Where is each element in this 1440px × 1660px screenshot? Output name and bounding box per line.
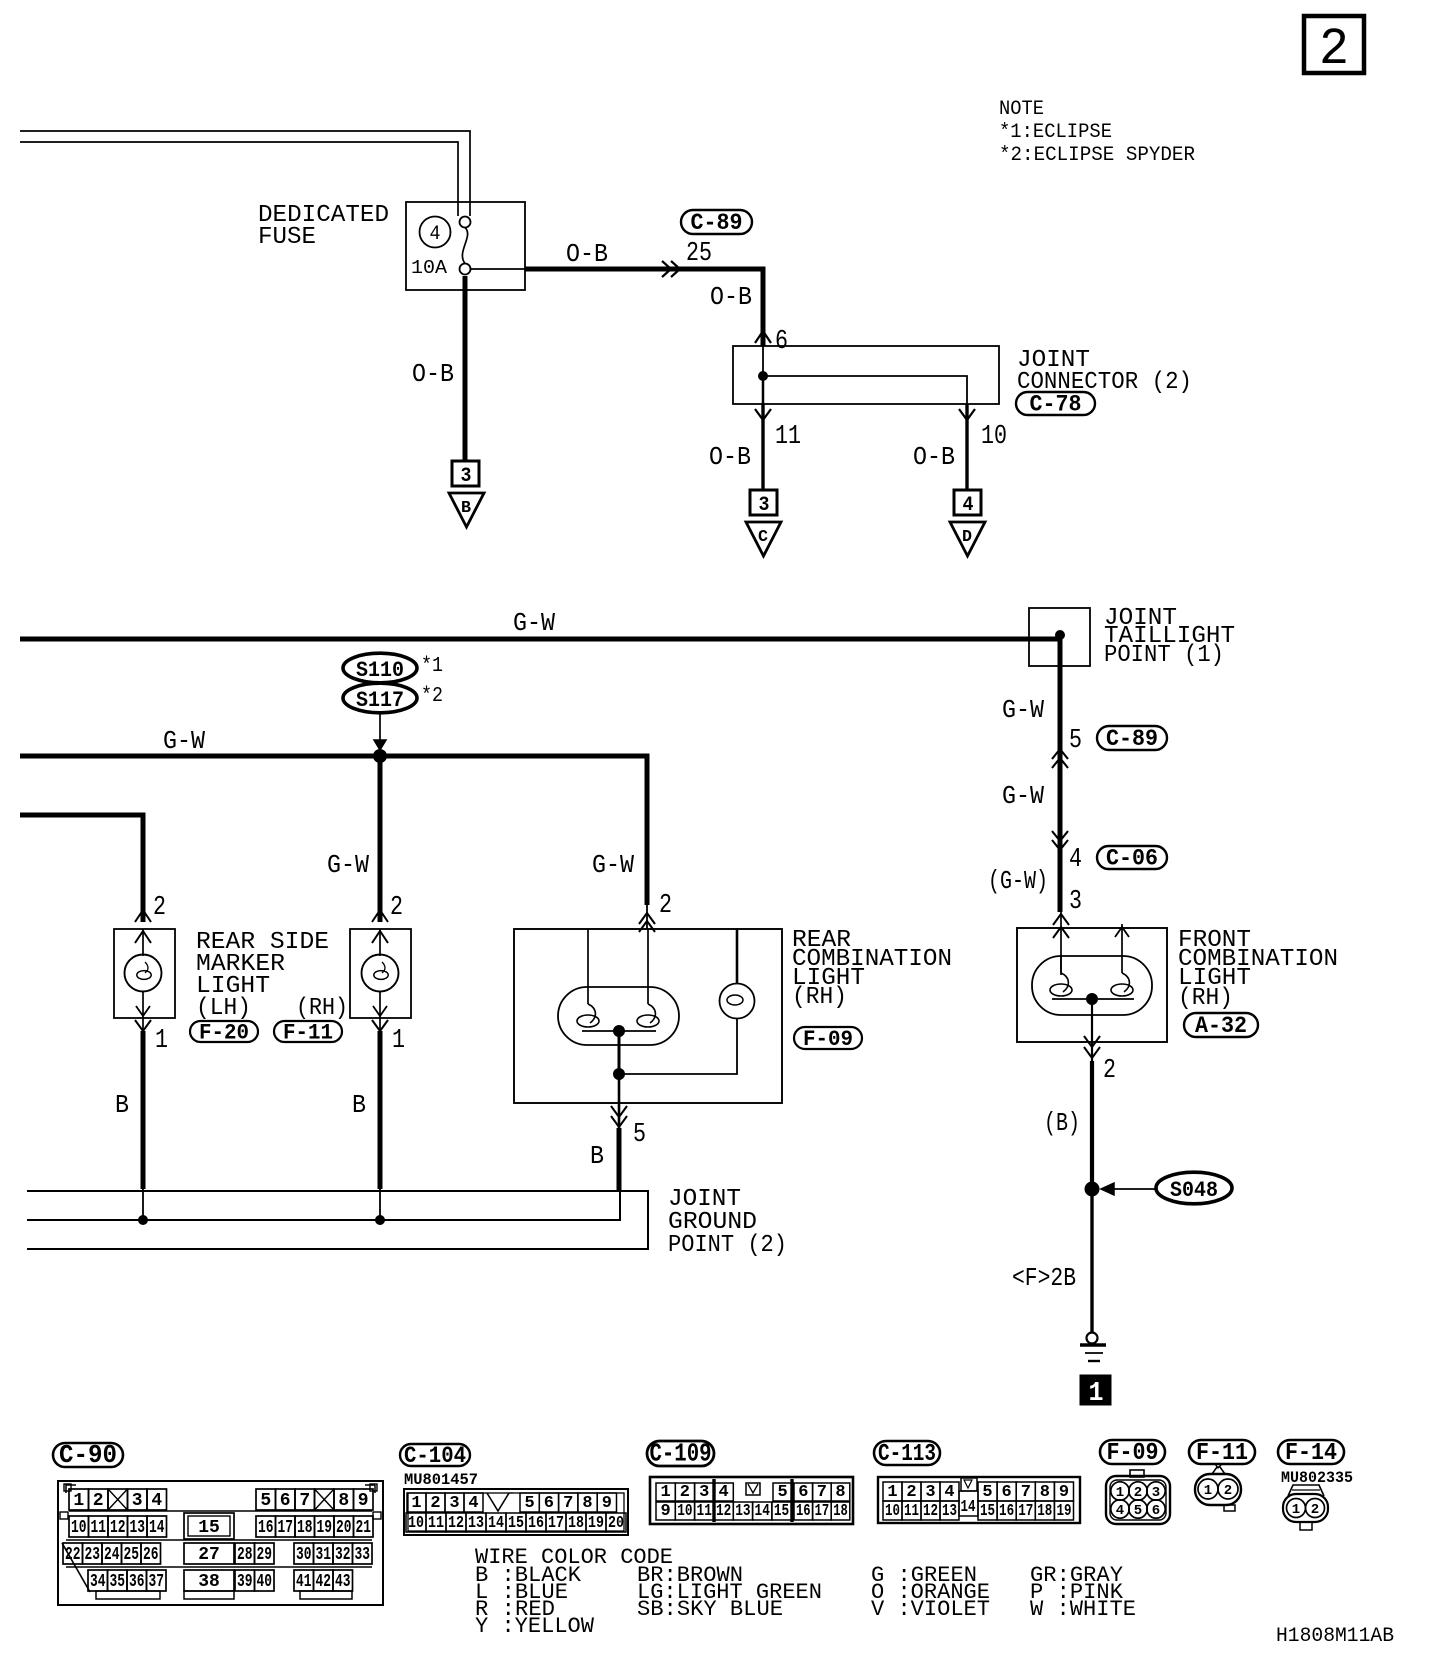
terminal arrow B (449, 493, 484, 527)
svg-text:3: 3 (449, 1494, 459, 1513)
svg-text:21: 21 (355, 1518, 371, 1538)
svg-text:18: 18 (833, 1502, 848, 1521)
ground reference 1 black box (1080, 1375, 1111, 1405)
connector F-09 capsule (rear combination) (794, 1027, 862, 1049)
svg-text:*1:ECLIPSE: *1:ECLIPSE (999, 121, 1112, 144)
svg-text:16: 16 (999, 1502, 1014, 1521)
svg-text:3: 3 (925, 1483, 935, 1502)
svg-text:A-32: A-32 (1195, 1013, 1247, 1039)
svg-text:7: 7 (817, 1483, 827, 1502)
wire O-B fuse to C-89 (thick) (525, 269, 763, 346)
junction dot in joint connector (759, 372, 768, 381)
wire to small bulb (619, 1019, 737, 1074)
connector C-89 capsule (right) (1097, 726, 1167, 750)
svg-text:41: 41 (296, 1572, 312, 1592)
junction dot ground RH (376, 1216, 385, 1225)
svg-text:32: 32 (335, 1545, 351, 1565)
svg-text:17: 17 (1018, 1502, 1033, 1521)
svg-text:5: 5 (524, 1494, 534, 1513)
svg-text:5: 5 (777, 1483, 787, 1502)
svg-text:O-B: O-B (566, 239, 608, 269)
connector F-20 capsule (190, 1021, 258, 1042)
svg-text:6: 6 (544, 1494, 554, 1513)
wire O-B to terminal C (761, 404, 764, 490)
svg-text:G-W: G-W (1002, 781, 1044, 811)
svg-text:7: 7 (563, 1494, 573, 1513)
svg-text:C-90: C-90 (59, 1440, 117, 1470)
svg-text:2: 2 (1224, 1483, 1232, 1499)
svg-text:6: 6 (280, 1491, 291, 1511)
svg-text:2: 2 (390, 893, 403, 923)
svg-text:33: 33 (354, 1545, 370, 1565)
svg-text:20: 20 (608, 1514, 624, 1533)
svg-text:37: 37 (148, 1572, 164, 1592)
svg-text:43: 43 (335, 1572, 351, 1592)
svg-text:7: 7 (299, 1491, 310, 1511)
svg-text:O-B: O-B (412, 359, 454, 389)
joint taillight point box (1029, 608, 1090, 666)
svg-text:11: 11 (90, 1518, 106, 1538)
svg-text:FUSE: FUSE (258, 224, 316, 251)
junction dot rear combination (614, 1026, 625, 1037)
arrow splice to junction (379, 714, 381, 744)
svg-text:S048: S048 (1170, 1178, 1218, 1203)
svg-text:40: 40 (256, 1572, 272, 1592)
svg-text:F-09: F-09 (1107, 1440, 1159, 1467)
svg-text:C: C (758, 528, 768, 547)
svg-text:3: 3 (132, 1491, 143, 1511)
wire O-B to terminal D (965, 404, 968, 490)
joint connector C-78 box (733, 346, 999, 404)
rear combination light box (514, 929, 782, 1103)
arrow down pin 11 (755, 409, 771, 420)
svg-text:23: 23 (84, 1545, 100, 1565)
svg-text:B: B (115, 1090, 129, 1120)
svg-text:17: 17 (815, 1502, 830, 1521)
connector C-90 capsule (53, 1443, 123, 1467)
svg-text:1: 1 (411, 1494, 421, 1513)
junction dot 2 rear combination (614, 1069, 625, 1080)
svg-text:5: 5 (1134, 1503, 1142, 1519)
svg-text:31: 31 (315, 1545, 331, 1565)
svg-text:9: 9 (1059, 1483, 1069, 1502)
junction dot ground LH (139, 1216, 148, 1225)
svg-text:B: B (590, 1141, 604, 1171)
arrow out of marker LH (136, 1006, 150, 1016)
svg-text:G-W: G-W (513, 608, 555, 638)
svg-text:6: 6 (1001, 1483, 1011, 1502)
arrow up at C-89 (1052, 749, 1068, 759)
svg-text:5: 5 (633, 1120, 646, 1150)
svg-text:14: 14 (755, 1502, 770, 1521)
svg-text:11: 11 (904, 1502, 919, 1521)
svg-text:2: 2 (153, 893, 166, 923)
arrow out of rear combination (611, 1106, 627, 1117)
svg-text:3: 3 (1069, 887, 1082, 917)
svg-text:4: 4 (468, 1494, 478, 1513)
svg-text:1: 1 (1116, 1485, 1124, 1501)
wire G-W main bus to joint taillight point (20, 637, 1059, 642)
svg-text:39: 39 (237, 1572, 253, 1592)
connector A-32 capsule (1184, 1013, 1258, 1037)
connector C-06 capsule (1097, 846, 1167, 869)
svg-text:18: 18 (568, 1514, 584, 1533)
rear combination inner link (582, 1030, 656, 1032)
connector C-89 capsule (top) (681, 210, 752, 234)
svg-text:12: 12 (716, 1502, 731, 1521)
rear side marker light RH box (350, 929, 411, 1018)
svg-text:O-B: O-B (709, 442, 751, 472)
front light filament right (1122, 973, 1129, 992)
arrow right on O-B wire (662, 261, 671, 277)
svg-text:10: 10 (677, 1502, 692, 1521)
svg-text:(LH): (LH) (196, 995, 251, 1022)
terminal arrow D (950, 522, 985, 556)
svg-text:1: 1 (1292, 1502, 1300, 1518)
svg-text:16: 16 (796, 1502, 811, 1521)
arrow down at C-06 (1052, 831, 1068, 841)
svg-text:*2: *2 (421, 685, 443, 708)
joint ground point bus (27, 1191, 648, 1249)
svg-text:18: 18 (1037, 1502, 1052, 1521)
svg-text:13: 13 (942, 1502, 957, 1521)
rear combination filament right (648, 1004, 655, 1023)
svg-text:SB:SKY BLUE: SB:SKY BLUE (637, 1597, 783, 1622)
svg-text:C-109: C-109 (650, 1439, 712, 1469)
connector F-14 capsule (1278, 1440, 1344, 1464)
svg-text:G-W: G-W (163, 726, 205, 756)
connector F-11 capsule (marker) (274, 1021, 342, 1042)
front light bulb stadium (1032, 956, 1152, 1015)
wire pair from page left (feed to dedicated fuse) (20, 131, 470, 216)
svg-text:1: 1 (660, 1483, 670, 1502)
svg-text:B: B (352, 1090, 366, 1120)
svg-text:8: 8 (1040, 1483, 1050, 1502)
svg-text:19: 19 (316, 1518, 332, 1538)
svg-text:1: 1 (155, 1026, 168, 1056)
svg-text:13: 13 (735, 1502, 750, 1521)
wire inside joint connector (763, 346, 967, 404)
svg-text:C-89: C-89 (691, 210, 743, 236)
svg-text:10: 10 (71, 1518, 87, 1538)
svg-text:19: 19 (1056, 1502, 1071, 1521)
connector F-09 pin face (1106, 1476, 1170, 1524)
svg-text:*2:ECLIPSE SPYDER: *2:ECLIPSE SPYDER (999, 144, 1195, 167)
svg-text:1: 1 (1204, 1483, 1212, 1499)
fuse F4 box (406, 202, 525, 290)
fuse element (460, 217, 471, 228)
marker RH internal wires (379, 929, 381, 956)
svg-text:B: B (461, 499, 471, 518)
svg-text:12: 12 (923, 1502, 938, 1521)
svg-text:36: 36 (129, 1572, 145, 1592)
svg-text:4: 4 (963, 494, 974, 517)
svg-text:9: 9 (358, 1491, 369, 1511)
svg-text:11: 11 (697, 1502, 712, 1521)
wire G-W second bus (20, 756, 647, 905)
svg-text:F-11: F-11 (1196, 1440, 1248, 1467)
connector C-90 pin grid (58, 1481, 383, 1605)
svg-text:18: 18 (297, 1518, 313, 1538)
svg-text:S117: S117 (356, 688, 404, 713)
svg-text:2: 2 (1319, 20, 1349, 79)
connector F-11 capsule (bottom) (1189, 1440, 1255, 1464)
splice S117 oval (343, 683, 417, 713)
svg-text:D: D (962, 528, 972, 547)
svg-text:10: 10 (408, 1514, 424, 1533)
junction dot on G-W bus (374, 750, 387, 763)
svg-text:4: 4 (1069, 845, 1082, 875)
svg-text:F-11: F-11 (283, 1021, 333, 1046)
terminal 3 square (to C) (750, 490, 777, 515)
svg-text:35: 35 (109, 1572, 125, 1592)
marker LH internal wires (142, 929, 144, 956)
rear combination filament left (588, 1004, 595, 1023)
svg-text:15: 15 (198, 1518, 220, 1538)
svg-text:(RH): (RH) (1178, 985, 1233, 1012)
connector F-11 pin face (1195, 1474, 1241, 1505)
svg-text:15: 15 (508, 1514, 524, 1533)
front combination light box (1017, 928, 1167, 1042)
svg-text:4: 4 (718, 1483, 728, 1502)
svg-text:7: 7 (1021, 1483, 1031, 1502)
wire B marker RH to ground bus (378, 1031, 383, 1189)
svg-text:C-78: C-78 (1030, 392, 1082, 418)
svg-text:MU801457: MU801457 (404, 1471, 478, 1489)
marker LH bulb (125, 955, 162, 992)
svg-text:(RH): (RH) (296, 995, 348, 1022)
svg-text:9: 9 (660, 1502, 670, 1521)
rear combination bulb stadium (558, 987, 679, 1045)
svg-text:1: 1 (1089, 1379, 1104, 1409)
svg-text:4: 4 (430, 223, 441, 246)
svg-text:20: 20 (336, 1518, 352, 1538)
svg-text:S110: S110 (356, 658, 404, 683)
svg-text:42: 42 (315, 1572, 331, 1592)
svg-text:14: 14 (488, 1514, 504, 1533)
svg-text:4: 4 (944, 1483, 954, 1502)
rear combination internal wire right (647, 929, 649, 1004)
wire B rear combination to ground bus (617, 1128, 622, 1191)
svg-text:11: 11 (775, 422, 801, 452)
svg-text:10: 10 (885, 1502, 900, 1521)
svg-text:H1808M11AB: H1808M11AB (1276, 1625, 1394, 1648)
arrow into marker LH (135, 910, 151, 922)
connector C-109 pin grid (650, 1477, 853, 1524)
svg-text:8: 8 (835, 1483, 845, 1502)
svg-text:G-W: G-W (327, 850, 369, 880)
svg-text:W :WHITE: W :WHITE (1030, 1597, 1136, 1622)
svg-text:22: 22 (65, 1545, 81, 1565)
connector C-113 capsule (874, 1441, 940, 1465)
wire F 2B to ground (1090, 1189, 1093, 1333)
svg-text:POINT (2): POINT (2) (668, 1232, 787, 1259)
svg-text:6: 6 (775, 327, 788, 357)
front light internal wire left (1060, 956, 1062, 973)
junction dot joint taillight point (1056, 631, 1065, 640)
svg-text:12: 12 (110, 1518, 126, 1538)
splice S048 dot (1085, 1182, 1099, 1196)
svg-text:O-B: O-B (710, 282, 752, 312)
svg-text:10: 10 (981, 422, 1007, 452)
svg-text:16: 16 (258, 1518, 274, 1538)
terminal 3 square (to B) (452, 461, 479, 486)
svg-text:4: 4 (151, 1491, 162, 1511)
svg-text:2: 2 (680, 1483, 690, 1502)
splice S110 oval (343, 653, 417, 683)
svg-text:2: 2 (659, 891, 672, 921)
junction dot front light (1087, 994, 1098, 1005)
svg-text:NOTE: NOTE (999, 98, 1044, 121)
svg-text:POINT (1): POINT (1) (1104, 642, 1224, 669)
svg-text:6: 6 (798, 1483, 808, 1502)
svg-text:G-W: G-W (1002, 695, 1044, 725)
front light inner link (1052, 998, 1134, 1000)
terminal 4 square (to D) (954, 490, 981, 515)
arrow S048 pointer (1104, 1188, 1157, 1190)
svg-text:2: 2 (906, 1483, 916, 1502)
wire B front light to splice (1090, 1061, 1094, 1189)
wire G-W joint taillight to front light (1058, 639, 1063, 912)
svg-text:8: 8 (338, 1491, 349, 1511)
svg-text:*1: *1 (421, 655, 443, 678)
fuse number 4 circle (420, 217, 451, 248)
svg-text:(G-W): (G-W) (988, 866, 1048, 896)
svg-text:4: 4 (1116, 1503, 1124, 1519)
svg-text:<F>2B: <F>2B (1012, 1263, 1076, 1293)
wire out of rear combination (618, 1074, 621, 1128)
svg-text:17: 17 (277, 1518, 293, 1538)
svg-text:V :VIOLET: V :VIOLET (871, 1597, 990, 1622)
svg-text:2: 2 (1311, 1502, 1319, 1518)
wire out of front light (1091, 999, 1093, 1061)
svg-text:13: 13 (468, 1514, 484, 1533)
svg-text:28: 28 (237, 1545, 253, 1565)
arrow out of front light (1084, 1036, 1100, 1047)
svg-text:38: 38 (198, 1572, 220, 1592)
svg-text:30: 30 (296, 1545, 312, 1565)
svg-text:24: 24 (104, 1545, 120, 1565)
wire joint connector pin 11 drop (762, 376, 765, 404)
svg-text:27: 27 (198, 1545, 220, 1565)
svg-text:25: 25 (123, 1545, 139, 1565)
arrow into rear combination light (639, 913, 655, 924)
svg-text:29: 29 (256, 1545, 272, 1565)
rear side marker light LH box (114, 929, 175, 1018)
svg-text:9: 9 (602, 1494, 612, 1513)
svg-text:13: 13 (129, 1518, 145, 1538)
svg-text:10A: 10A (411, 257, 448, 279)
terminal arrow C (746, 522, 781, 556)
wire fuse output (thin inside box) (470, 268, 525, 270)
connector C-104 capsule (400, 1444, 470, 1466)
svg-text:16: 16 (528, 1514, 544, 1533)
arrow up into joint connector (755, 331, 771, 343)
svg-text:2: 2 (1103, 1056, 1116, 1086)
page number 2 box (1304, 16, 1364, 73)
svg-text:(RH): (RH) (792, 984, 847, 1011)
svg-text:11: 11 (428, 1514, 444, 1533)
connector C-113 pin grid (878, 1477, 1080, 1523)
svg-text:14: 14 (961, 1498, 976, 1517)
arrow out of marker RH (373, 1006, 387, 1016)
svg-text:2: 2 (430, 1494, 440, 1513)
svg-text:15: 15 (774, 1502, 789, 1521)
marker RH bulb (362, 955, 399, 992)
svg-text:3: 3 (759, 494, 770, 517)
connector F-14 pin face (1283, 1494, 1328, 1522)
svg-text:3: 3 (699, 1483, 709, 1502)
svg-text:C-06: C-06 (1106, 846, 1158, 872)
svg-text:F-14: F-14 (1285, 1440, 1337, 1467)
svg-text:F-09: F-09 (803, 1027, 853, 1052)
svg-text:6: 6 (1152, 1503, 1160, 1519)
svg-text:26: 26 (143, 1545, 159, 1565)
svg-text:C-104: C-104 (404, 1443, 466, 1469)
svg-text:17: 17 (548, 1514, 564, 1533)
svg-text:(B): (B) (1044, 1108, 1080, 1138)
connector F-09 capsule (bottom) (1100, 1440, 1165, 1464)
svg-text:1: 1 (73, 1491, 84, 1511)
svg-text:O-B: O-B (913, 442, 955, 472)
connector C-104 pin grid (404, 1489, 628, 1535)
wire to second junction (618, 1031, 621, 1074)
svg-text:1: 1 (887, 1483, 897, 1502)
svg-text:8: 8 (582, 1494, 592, 1513)
rear combination small bulb (720, 984, 755, 1019)
front light filament left (1061, 973, 1068, 992)
ground symbol (1087, 1333, 1098, 1344)
svg-text:34: 34 (90, 1572, 106, 1592)
wire G-W drop to rear side marker RH (378, 756, 383, 922)
connector C-78 capsule (1016, 392, 1095, 415)
wire B marker LH to ground bus (141, 1031, 146, 1189)
svg-text:2: 2 (93, 1491, 104, 1511)
svg-text:3: 3 (1152, 1485, 1160, 1501)
splice S048 oval (1156, 1172, 1232, 1204)
svg-text:5: 5 (1069, 726, 1082, 756)
svg-text:25: 25 (686, 239, 712, 269)
arrow into front combination light (1053, 914, 1069, 925)
svg-text:C-113: C-113 (878, 1441, 936, 1468)
wire into front light box (1060, 912, 1062, 975)
svg-text:14: 14 (149, 1518, 165, 1538)
svg-text:1: 1 (392, 1026, 405, 1056)
wire O-B fuse down to terminal (463, 276, 468, 461)
svg-text:3: 3 (461, 465, 472, 488)
svg-text:C-89: C-89 (1106, 726, 1158, 752)
wire G-W left branch (20, 815, 143, 922)
rear combination internal wire left (587, 929, 589, 1004)
svg-text:Y :YELLOW: Y :YELLOW (475, 1614, 595, 1639)
front light internal wire right (1121, 924, 1123, 973)
svg-text:19: 19 (588, 1514, 604, 1533)
svg-text:2: 2 (1134, 1485, 1142, 1501)
svg-text:12: 12 (448, 1514, 464, 1533)
svg-text:G-W: G-W (592, 850, 634, 880)
wire G-W drop thin tail (rear combination) (646, 905, 648, 929)
arrow into marker RH (372, 910, 388, 922)
svg-text:F-20: F-20 (199, 1021, 249, 1046)
arrow down pin 10 (959, 409, 975, 420)
svg-text:15: 15 (980, 1502, 995, 1521)
connector C-109 capsule (647, 1441, 714, 1466)
svg-text:5: 5 (982, 1483, 992, 1502)
svg-text:5: 5 (260, 1491, 271, 1511)
